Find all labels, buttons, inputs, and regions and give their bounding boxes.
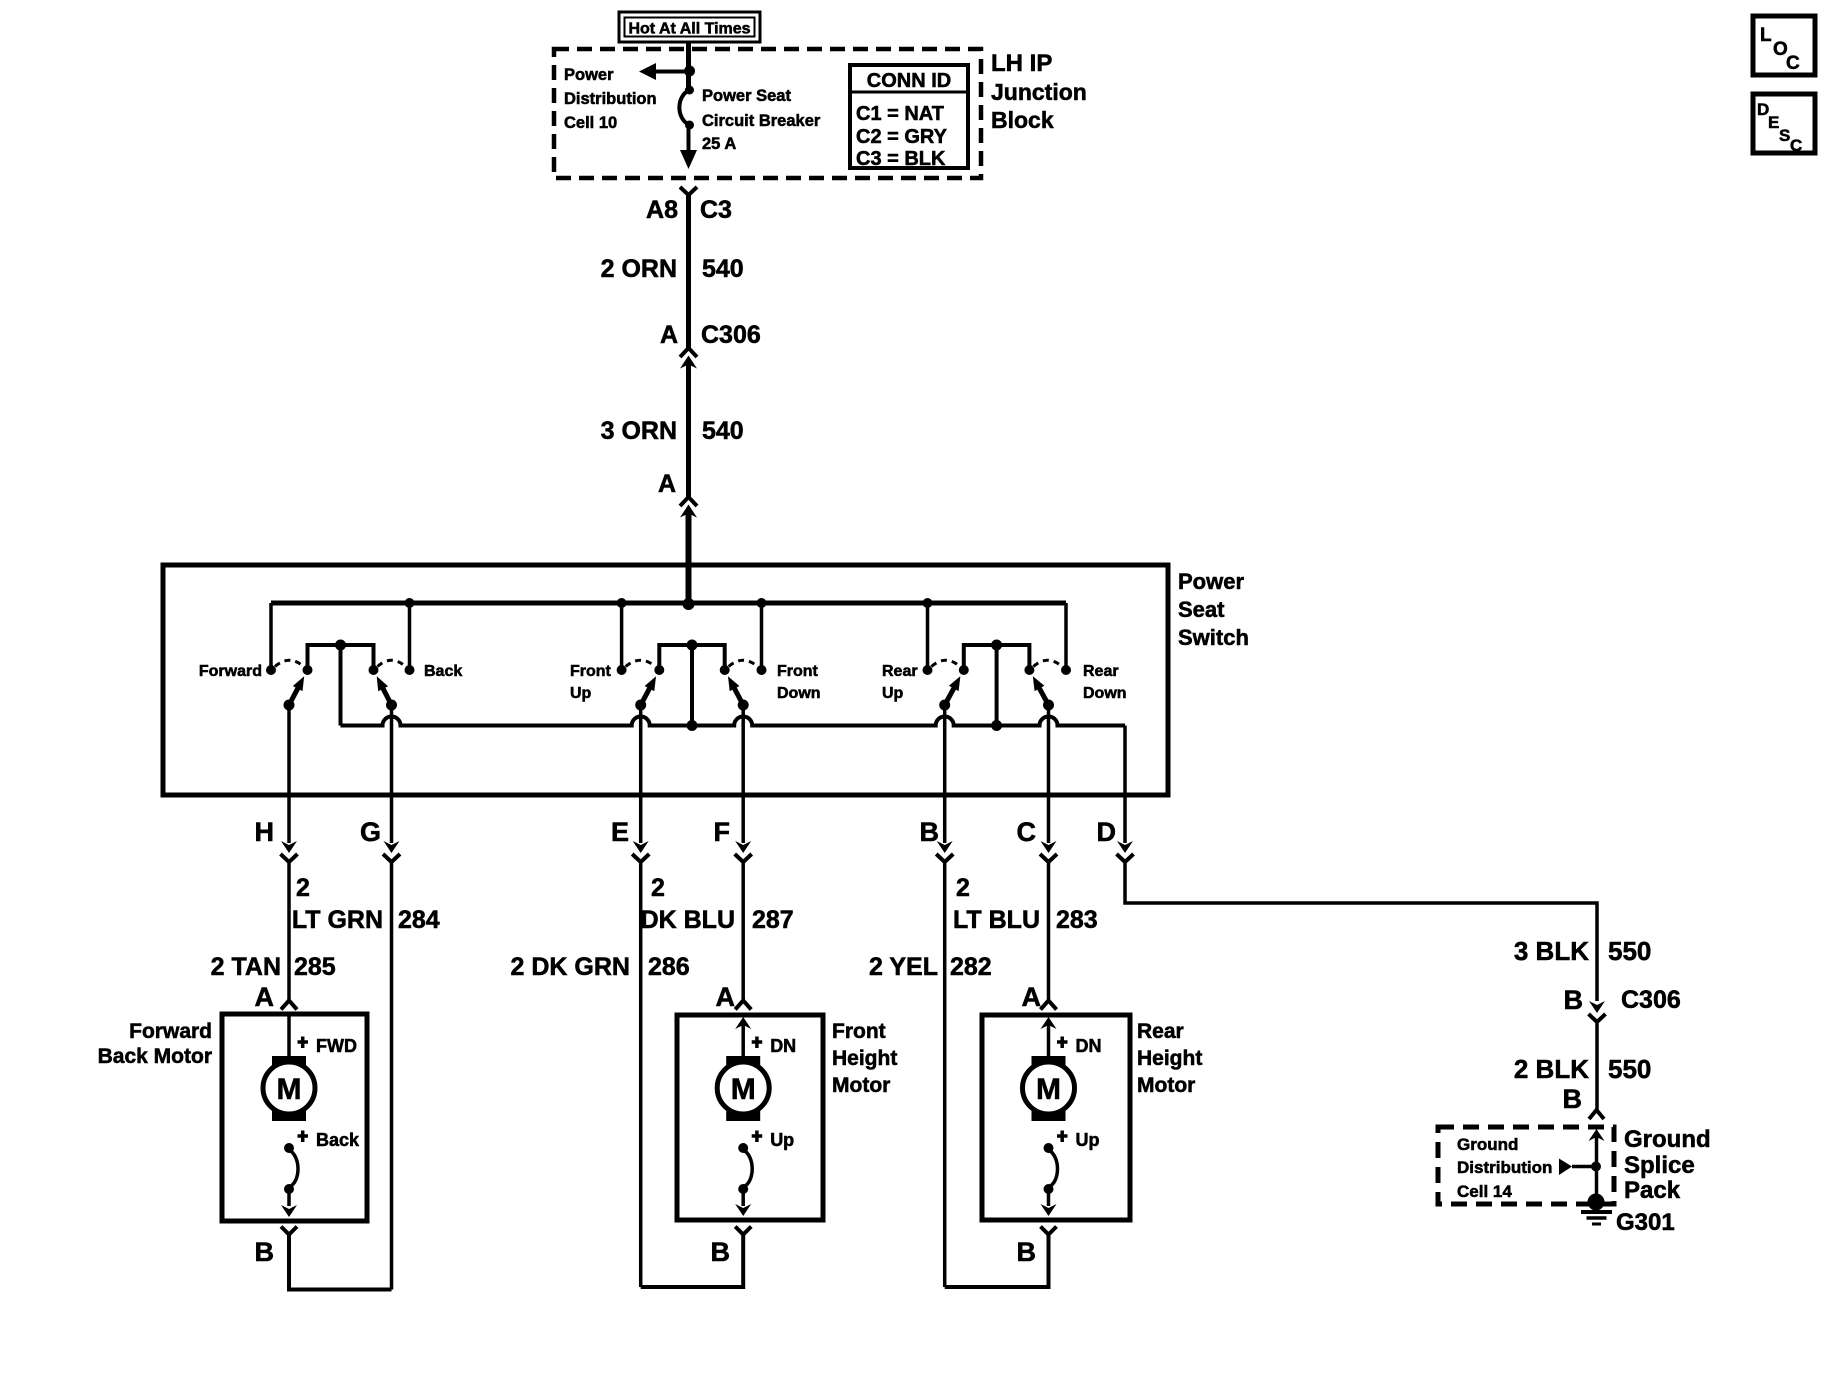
wire pin G down [390, 862, 394, 1290]
motor 2 internal feed [735, 1017, 751, 1056]
svg-text:M: M [731, 1073, 756, 1106]
label motor 3 +DN [1057, 1036, 1102, 1056]
LH IP Junction Block dashed boundary [554, 49, 981, 178]
svg-text:Front: Front [570, 663, 612, 680]
svg-text:Rear: Rear [882, 663, 918, 680]
motor 3 internal feed [1041, 1017, 1057, 1056]
label 3 ORN 540 [601, 417, 744, 445]
svg-text:G: G [360, 817, 381, 847]
connector pin D [1117, 841, 1134, 862]
label 2 LT GRN 284 [292, 874, 440, 934]
svg-text:C: C [1790, 136, 1802, 155]
label 2 DK BLU 287 [641, 874, 794, 934]
svg-text:Up: Up [882, 685, 904, 702]
svg-text:C1 = NAT: C1 = NAT [856, 103, 944, 125]
motor 1 internal feed [287, 1014, 291, 1056]
ground G301 [1581, 1194, 1612, 1225]
svg-text:Forward: Forward [129, 1020, 212, 1043]
svg-text:3 BLK: 3 BLK [1514, 936, 1589, 966]
connector A8 C3 at junction block [646, 187, 732, 224]
wire 3 ORN 540 [686, 364, 691, 497]
svg-text:M: M [1036, 1073, 1061, 1106]
label 2 TAN 285 [211, 953, 336, 981]
svg-text:C2 = GRY: C2 = GRY [856, 126, 948, 148]
label pin D [1097, 817, 1117, 847]
svg-text:25 A: 25 A [702, 135, 736, 153]
label motor 2 pin B [711, 1237, 731, 1267]
svg-text:Power: Power [564, 66, 614, 84]
label motor 3 pin B [1017, 1237, 1037, 1267]
switch 2 arm right [728, 676, 749, 710]
label Forward Back Motor [98, 1020, 212, 1068]
svg-text:FWD: FWD [316, 1036, 357, 1056]
svg-text:Cell 10: Cell 10 [564, 114, 617, 132]
label pin F [714, 817, 731, 847]
switch 1 common bar to return [339, 645, 343, 726]
label motor 3 pin A [1022, 982, 1042, 1012]
svg-text:C: C [1786, 53, 1800, 74]
label Power Distribution Cell 10 [564, 66, 657, 132]
svg-text:Distribution: Distribution [1457, 1158, 1552, 1177]
wire switch feed [686, 513, 692, 606]
svg-text:2 ORN: 2 ORN [601, 255, 677, 283]
wire motor 1 pin B internal [281, 1189, 297, 1217]
svg-text:Cell 14: Cell 14 [1457, 1182, 1512, 1201]
label pin G [360, 817, 381, 847]
connector motor 3 pin A [1041, 1001, 1057, 1010]
switch 1 bus drop right [405, 598, 415, 670]
connector pin H [281, 841, 298, 862]
svg-text:A8: A8 [646, 196, 678, 224]
label Ground Distribution Cell 14 [1457, 1135, 1552, 1201]
label Power Seat Circuit Breaker 25 A [702, 87, 821, 153]
svg-text:284: 284 [398, 906, 440, 934]
wire into motor 3 pin A [1047, 862, 1051, 1000]
label Front Up [570, 663, 612, 702]
wire pin E down [639, 862, 643, 1287]
svg-text:Pack: Pack [1624, 1177, 1681, 1204]
switch 2 common bar to return [690, 645, 694, 726]
label Front Height Motor [832, 1020, 897, 1097]
svg-text:Block: Block [991, 107, 1054, 133]
power seat switch box [163, 565, 1168, 795]
motor 1 symbol [263, 1056, 315, 1121]
switch 3 common bar [964, 640, 1030, 671]
connector pin G [383, 841, 400, 862]
switch 2 bus drop right [757, 598, 767, 670]
svg-text:2: 2 [296, 874, 310, 902]
label LH IP Junction Block [991, 50, 1087, 133]
connector pin C [1040, 841, 1057, 862]
switch 3 contact dots [923, 665, 1072, 675]
svg-text:C306: C306 [1621, 986, 1681, 1014]
svg-text:E: E [611, 817, 629, 847]
label motor 2 +DN [752, 1036, 797, 1056]
label motor 1 pin A [255, 982, 275, 1012]
svg-text:2: 2 [956, 874, 970, 902]
svg-text:Seat: Seat [1178, 597, 1225, 622]
svg-text:C: C [1017, 817, 1037, 847]
wire switch pin G [390, 705, 394, 843]
label pin E [611, 817, 629, 847]
svg-text:Back Motor: Back Motor [98, 1045, 212, 1068]
switch 3 bus drop left [923, 598, 933, 670]
switch 2 arm left [635, 676, 656, 710]
svg-text:CONN ID: CONN ID [867, 70, 951, 92]
label Rear Down [1083, 663, 1127, 702]
svg-text:Ground: Ground [1457, 1135, 1518, 1154]
svg-text:A: A [716, 982, 736, 1012]
wire 2 ORN 540 [686, 195, 691, 348]
label Forward [199, 663, 262, 680]
svg-text:2 YEL: 2 YEL [869, 953, 938, 981]
svg-text:2 TAN: 2 TAN [211, 953, 281, 981]
label 3 BLK 550 [1514, 936, 1652, 966]
motor 1 box [222, 1014, 367, 1221]
switch 2 bus drop left [617, 598, 627, 670]
svg-text:C3 = BLK: C3 = BLK [856, 148, 946, 170]
label Rear Up [882, 663, 918, 702]
svg-text:Motor: Motor [832, 1074, 890, 1097]
label motor 2 +Up [752, 1130, 795, 1150]
wire switch pin E [639, 705, 643, 843]
connector motor 2 pin A [735, 1001, 751, 1010]
wire to ground distribution cell 14 [1559, 1159, 1601, 1176]
label 2 YEL 282 [869, 953, 992, 981]
svg-text:Power: Power [1178, 569, 1244, 594]
wire pin B down [943, 862, 947, 1287]
switch 3 arm right [1033, 676, 1054, 710]
svg-text:B: B [1017, 1237, 1037, 1267]
svg-text:DN: DN [1076, 1036, 1102, 1056]
svg-text:S: S [1779, 126, 1790, 145]
label Ground Splice Pack G301 [1616, 1126, 1711, 1236]
wire motor 2 pin B to E [641, 1235, 744, 1288]
wire motor 3 pin B to B [945, 1235, 1049, 1288]
wire battery feed [686, 43, 691, 88]
svg-text:287: 287 [752, 906, 794, 934]
label box Hot At All Times [619, 12, 760, 42]
motor 2 one-shot device [738, 1143, 752, 1194]
label Back [424, 663, 462, 680]
label 2 ORN 540 [601, 255, 744, 283]
node bus feed [683, 598, 695, 610]
svg-text:B: B [920, 817, 940, 847]
wire motor 3 pin B internal [1041, 1189, 1057, 1216]
label pin H [255, 817, 275, 847]
DESC reference box [1753, 94, 1815, 155]
svg-text:282: 282 [950, 953, 992, 981]
wire switch common return [341, 717, 1126, 726]
svg-text:B: B [711, 1237, 731, 1267]
svg-text:Ground: Ground [1624, 1126, 1711, 1153]
svg-text:285: 285 [294, 953, 336, 981]
svg-text:Rear: Rear [1083, 663, 1119, 680]
svg-text:Power Seat: Power Seat [702, 87, 791, 105]
connector pin F [735, 841, 752, 862]
label motor 2 pin A [716, 982, 736, 1012]
svg-text:B: B [255, 1237, 275, 1267]
svg-text:Up: Up [770, 1130, 794, 1150]
svg-text:LT BLU: LT BLU [953, 906, 1040, 934]
svg-text:2: 2 [651, 874, 665, 902]
svg-text:D: D [1097, 817, 1117, 847]
switch 3 bus drop right [1064, 603, 1068, 670]
label 2 DK GRN 286 [511, 953, 690, 981]
motor 1 one-shot device [284, 1143, 298, 1194]
wire switch pin D [1123, 726, 1127, 844]
wire breaker output arrow [680, 125, 697, 169]
svg-text:Up: Up [1076, 1130, 1100, 1150]
connector C306 pin A [660, 321, 761, 369]
svg-text:2 BLK: 2 BLK [1514, 1054, 1589, 1084]
switch 1 arm left [284, 676, 305, 710]
connector ground splice pack [1589, 1110, 1604, 1119]
svg-text:G301: G301 [1616, 1209, 1675, 1236]
svg-text:A: A [255, 982, 275, 1012]
svg-text:Height: Height [1137, 1047, 1202, 1070]
svg-text:Circuit Breaker: Circuit Breaker [702, 112, 821, 130]
ground distribution dashed boundary [1438, 1127, 1614, 1204]
svg-text:Back: Back [424, 663, 462, 680]
switch 1 travel arc left [275, 660, 304, 666]
motor 3 symbol [1023, 1056, 1075, 1121]
svg-text:A: A [658, 470, 676, 498]
switch 2 travel arc left [626, 660, 656, 666]
svg-text:Splice: Splice [1624, 1152, 1695, 1179]
switch 3 common bar to return [995, 645, 999, 726]
switch 3 travel arc left [932, 660, 960, 666]
svg-text:Switch: Switch [1178, 625, 1249, 650]
label Rear Height Motor [1137, 1020, 1202, 1097]
connector pin E [632, 841, 649, 862]
svg-text:540: 540 [702, 417, 744, 445]
svg-text:283: 283 [1056, 906, 1098, 934]
label ground pin B [1563, 1084, 1583, 1114]
motor 2 box [677, 1015, 823, 1220]
svg-text:Back: Back [316, 1130, 360, 1150]
svg-text:550: 550 [1608, 936, 1651, 966]
wire switch pin B [943, 705, 947, 843]
connector A at power seat switch [658, 470, 697, 518]
circuit breaker Power Seat Circuit Breaker 25 A [679, 86, 694, 130]
svg-text:Junction: Junction [991, 79, 1087, 105]
wire motor 2 pin B internal [735, 1189, 751, 1216]
node return splice rear [991, 720, 1002, 731]
svg-text:A: A [660, 321, 678, 349]
node return splice front [687, 720, 698, 731]
label pin B [920, 817, 940, 847]
svg-text:Hot At All Times: Hot At All Times [628, 21, 750, 38]
switch 2 contact dots [617, 665, 767, 675]
connector C306 pin B ground [1564, 985, 1681, 1022]
svg-text:Distribution: Distribution [564, 90, 657, 108]
svg-text:550: 550 [1608, 1054, 1651, 1084]
label Front Down [777, 663, 821, 702]
svg-text:286: 286 [648, 953, 690, 981]
svg-text:L: L [1760, 25, 1772, 46]
svg-text:Front: Front [777, 663, 819, 680]
label Power Seat Switch [1178, 569, 1249, 650]
switch 1 bus drop left [269, 603, 273, 670]
svg-text:DK BLU: DK BLU [641, 906, 735, 934]
connector motor 2 pin B [735, 1227, 751, 1235]
svg-text:Forward: Forward [199, 663, 262, 680]
wire motor 1 pin B to G [289, 1235, 392, 1290]
label motor 1 +FWD [298, 1036, 357, 1056]
svg-text:C3: C3 [700, 196, 732, 224]
label motor 3 +Up [1057, 1130, 1100, 1150]
wire into motor 2 pin A [741, 862, 745, 1000]
svg-text:B: B [1564, 985, 1584, 1015]
svg-text:2 DK GRN: 2 DK GRN [511, 953, 630, 981]
svg-text:Down: Down [777, 685, 821, 702]
svg-text:C306: C306 [701, 321, 761, 349]
svg-text:Up: Up [570, 685, 592, 702]
connector motor 1 pin A [281, 1001, 297, 1010]
wire switch pin F [741, 705, 745, 843]
svg-text:H: H [255, 817, 275, 847]
connector motor 1 pin B [281, 1227, 297, 1235]
svg-text:B: B [1563, 1084, 1583, 1114]
wire into motor 1 pin A [287, 862, 291, 1000]
svg-text:LH IP: LH IP [991, 50, 1052, 77]
svg-text:Height: Height [832, 1047, 897, 1070]
switch 3 arm left [939, 676, 960, 710]
svg-text:Motor: Motor [1137, 1074, 1195, 1097]
svg-text:540: 540 [702, 255, 744, 283]
switch 1 contact dots [266, 665, 415, 675]
svg-text:M: M [277, 1073, 302, 1106]
switch 2 common bar [659, 640, 724, 671]
switch 3 travel arc right [1033, 660, 1062, 666]
wire pin D to ground splice [1125, 862, 1597, 1001]
switch 1 travel arc right [378, 660, 406, 666]
motor 2 symbol [717, 1056, 769, 1121]
node junction block splice [684, 66, 695, 77]
connector pin B [936, 841, 953, 862]
svg-text:DN: DN [770, 1036, 796, 1056]
svg-text:Rear: Rear [1137, 1020, 1184, 1043]
svg-text:A: A [1022, 982, 1042, 1012]
label 2 BLK 550 [1514, 1054, 1652, 1084]
svg-text:F: F [714, 817, 731, 847]
label motor 1 +Back [298, 1130, 361, 1150]
wire ground splice internal [1589, 1129, 1605, 1200]
svg-text:E: E [1768, 113, 1779, 132]
wire switch pin C [1047, 705, 1051, 843]
switch 2 travel arc right [729, 660, 758, 666]
motor 3 box [982, 1015, 1130, 1220]
svg-text:Front: Front [832, 1020, 886, 1043]
wire 2 BLK 550 [1595, 1022, 1599, 1110]
label pin C [1017, 817, 1037, 847]
LOC reference box [1753, 16, 1815, 75]
svg-text:Down: Down [1083, 685, 1127, 702]
connector motor 3 pin B [1041, 1227, 1057, 1235]
wire to power distribution (left arrow) [639, 63, 689, 80]
CONN ID table [850, 65, 968, 170]
wire supply bus [271, 601, 1066, 606]
motor 3 one-shot device [1044, 1143, 1058, 1194]
svg-text:LT GRN: LT GRN [292, 906, 383, 934]
svg-text:3 ORN: 3 ORN [601, 417, 677, 445]
switch 1 arm right [377, 676, 397, 710]
label 2 LT BLU 283 [953, 874, 1098, 934]
label motor 1 pin B [255, 1237, 275, 1267]
wire switch pin H [287, 705, 291, 843]
switch 1 common bar [308, 640, 374, 671]
